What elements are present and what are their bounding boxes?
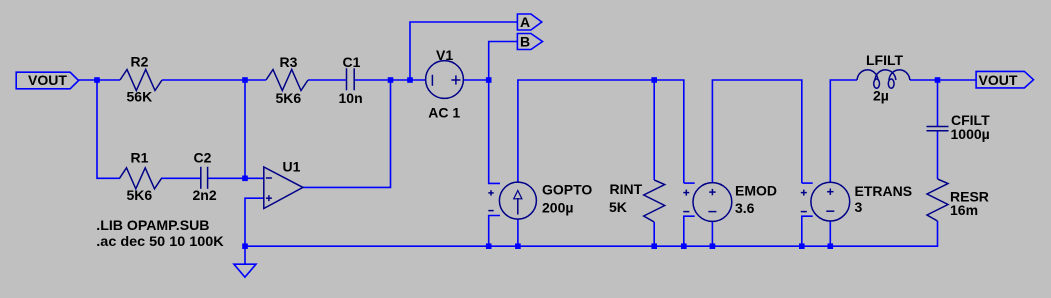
svg-text:C1: C1: [343, 54, 361, 70]
wire opamp output up to top row: [303, 80, 391, 187]
svg-text:A: A: [520, 14, 530, 30]
resistor RESR: [927, 179, 948, 221]
wire node to A flag: [410, 22, 517, 80]
port flag VOUT (left): [16, 72, 78, 89]
svg-text:16m: 16m: [950, 202, 978, 218]
node rail GOPTO ctrl- junction: [486, 243, 492, 249]
wire ETRANS out bottom to rail: [829, 221, 831, 246]
svg-text:3: 3: [855, 199, 863, 215]
svg-text:.LIB OPAMP.SUB: .LIB OPAMP.SUB: [96, 217, 209, 233]
port flag A: [517, 14, 541, 30]
capacitor C1: [347, 68, 355, 90]
wire bottom ground rail: [245, 245, 830, 247]
wire GOPTO ctrl minus stub to rail: [489, 216, 500, 247]
wire EMOD out top to ETRANS ctrl: [712, 80, 801, 183]
vcvs EMOD: [683, 183, 732, 222]
wire ETRANS out top to LFILT: [830, 80, 857, 182]
node rail RINT junction: [651, 243, 657, 249]
wire EMOD out bottom to rail: [711, 221, 713, 246]
wire feedback left vertical: [97, 80, 120, 178]
wire EMOD ctrl plus stub: [684, 182, 695, 184]
wire GOPTO top to EMOD ctrl: [518, 80, 684, 183]
node VOUT-left junction: [94, 77, 100, 83]
wire GOPTO out bottom to rail: [517, 219, 519, 246]
svg-text:V1: V1: [436, 47, 453, 63]
wire CFILT to RESR: [937, 131, 939, 179]
wire C2 to opamp inverting input: [208, 177, 264, 179]
svg-text:5K6: 5K6: [276, 90, 302, 106]
node rail ETRANS out- junction: [828, 243, 834, 249]
wire R1 to C2: [161, 177, 201, 179]
node A junction: [407, 77, 413, 83]
node opamp output junction: [388, 77, 394, 83]
node rail ETRANS ctrl- junction: [799, 243, 805, 249]
inductor LFILT: [857, 70, 910, 88]
resistor RINT: [644, 180, 665, 222]
node CFILT top junction: [935, 77, 941, 83]
svg-text:5K: 5K: [609, 199, 627, 215]
voltage source V1: [426, 61, 464, 99]
svg-text:2n2: 2n2: [193, 187, 217, 203]
node rail EMOD ctrl- junction: [681, 243, 687, 249]
svg-text:EMOD: EMOD: [735, 182, 777, 198]
svg-text:VOUT: VOUT: [28, 72, 67, 88]
wire R3 to C1: [308, 79, 346, 81]
wire RINT top: [653, 80, 655, 180]
svg-text:RINT: RINT: [610, 181, 643, 197]
vcvs ETRANS: [801, 182, 850, 221]
node ground junction: [242, 243, 248, 249]
wire EMOD ctrl minus stub to rail: [684, 216, 695, 246]
svg-text:LFILT: LFILT: [866, 52, 904, 68]
svg-text:GOPTO: GOPTO: [542, 182, 592, 198]
svg-text:U1: U1: [283, 159, 301, 175]
wire top node to CFILT: [937, 80, 939, 126]
node B / V1+ junction: [486, 77, 492, 83]
node R2-R3 junction: [242, 77, 248, 83]
wire GOPTO ctrl plus stub: [489, 80, 500, 183]
op-amp U1: [264, 167, 303, 209]
svg-text:.ac dec 50 10 100K: .ac dec 50 10 100K: [96, 233, 223, 249]
svg-text:R2: R2: [131, 54, 149, 70]
resistor R1: [120, 168, 162, 189]
resistor R2: [120, 70, 162, 91]
wire node R2R3 down to opamp input: [244, 80, 246, 178]
port flag VOUT (right): [976, 71, 1033, 88]
wire ETRANS ctrl minus stub to rail: [802, 216, 813, 246]
port flag B: [517, 34, 542, 50]
node rail EMOD out- junction: [710, 243, 716, 249]
svg-text:2µ: 2µ: [873, 87, 889, 103]
wire opamp noninverting input down to ground rail: [245, 198, 264, 246]
svg-text:R1: R1: [131, 150, 149, 166]
wire RESR bottom to rail: [830, 221, 937, 246]
wire node to B flag: [489, 42, 518, 81]
wire VOUT-left tip to R2: [79, 79, 120, 81]
wire ETRANS ctrl plus stub: [802, 182, 813, 184]
node RINT top junction: [651, 77, 657, 83]
wire V1 to node B-drop: [463, 79, 489, 81]
capacitor C2: [201, 167, 208, 189]
wire RINT bottom to rail: [653, 222, 655, 246]
wire R2 to R3: [162, 79, 266, 81]
node rail GOPTO out- junction: [515, 243, 521, 249]
wire C1 to V1: [355, 79, 426, 81]
wire ground stub: [244, 246, 246, 264]
svg-text:3.6: 3.6: [735, 200, 755, 216]
svg-text:VOUT: VOUT: [979, 72, 1018, 88]
resistor R3: [266, 70, 308, 91]
svg-text:ETRANS: ETRANS: [855, 183, 913, 199]
current source GOPTO: [488, 182, 536, 219]
svg-text:B: B: [520, 34, 530, 50]
svg-text:R3: R3: [280, 54, 298, 70]
svg-text:10n: 10n: [339, 90, 363, 106]
svg-text:1000µ: 1000µ: [951, 126, 990, 142]
wire LFILT to VOUT right flag: [910, 79, 976, 81]
svg-text:5K6: 5K6: [127, 187, 153, 203]
svg-text:AC 1: AC 1: [428, 105, 460, 121]
ground: [234, 264, 256, 277]
capacitor CFILT: [927, 127, 949, 131]
svg-text:C2: C2: [194, 150, 212, 166]
svg-text:56K: 56K: [127, 89, 153, 105]
svg-text:200µ: 200µ: [542, 199, 573, 215]
node opamp inverting junction: [242, 176, 248, 182]
